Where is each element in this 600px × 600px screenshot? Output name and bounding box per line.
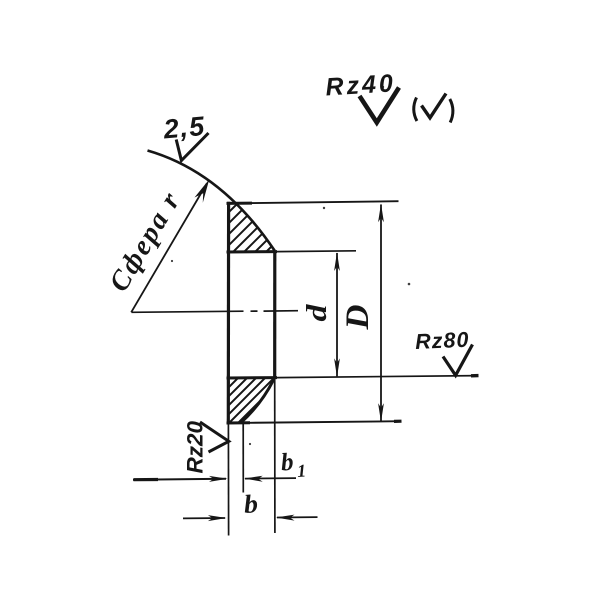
b1 arrowhead (right-pointing, at left face line) bbox=[209, 476, 228, 482]
b1 dimension line right part bbox=[245, 477, 296, 480]
D dimension line bbox=[380, 205, 382, 422]
b arrowhead (left-pointing, at right edge line) bbox=[276, 515, 295, 521]
parenthesis left of (check) bbox=[414, 98, 417, 122]
svg-text:Rz80: Rz80 bbox=[415, 328, 470, 354]
scan speck left of leader line bbox=[171, 260, 173, 262]
svg-text:b: b bbox=[280, 449, 294, 477]
washer top face line (thick part) bbox=[227, 202, 253, 205]
top extension line for D bbox=[252, 201, 399, 203]
hatching bottom band bbox=[177, 360, 301, 430]
svg-text:Rz40: Rz40 bbox=[325, 69, 397, 101]
svg-text:Rz20: Rz20 bbox=[183, 420, 208, 473]
washer right edge line (hole-sphere intersection) bbox=[273, 250, 276, 378]
washer hole-bottom line (thick) bbox=[227, 376, 278, 379]
hatching top band bbox=[193, 193, 298, 298]
b1 extension line (arc-bottom intersection) bbox=[242, 424, 244, 493]
b1 arrowhead (left-pointing, at b1 line) bbox=[244, 476, 263, 482]
b1 dimension line left start blob bbox=[134, 478, 159, 481]
scan speck near Rz40 check bbox=[382, 86, 384, 88]
washer bottom face line (thick part) bbox=[227, 421, 251, 424]
Rz80 roughness checkmark on surface line bbox=[443, 345, 473, 376]
scan speck right of D label bbox=[408, 283, 411, 286]
parenthesis right of (check) bbox=[450, 99, 453, 123]
Rz20 roughness checkmark on left face extension bbox=[200, 422, 229, 452]
washer hole-top line (thick) bbox=[227, 250, 278, 253]
d dimension arrowhead bottom bbox=[334, 358, 340, 377]
arrowhead of sphere leader (points up-right at arc) bbox=[195, 179, 210, 203]
d dimension arrowhead top bbox=[334, 252, 340, 271]
roughness mark 2,5 checkmark on arc bbox=[176, 133, 208, 161]
b1 dimension line left part bbox=[133, 478, 226, 481]
right edge extension down for b bbox=[274, 378, 276, 533]
scan speck below washer bbox=[249, 443, 251, 445]
leader line for sphere radius bbox=[131, 184, 207, 313]
bottom extension line for D bbox=[250, 421, 401, 423]
b dimension line right part bbox=[277, 516, 318, 518]
hole-top extension line for d bbox=[277, 250, 356, 253]
left face extension line down bbox=[227, 424, 229, 536]
end tick of Rz80 surface line bbox=[471, 374, 479, 378]
D dimension arrowhead bottom bbox=[378, 403, 384, 422]
svg-text:1: 1 bbox=[296, 460, 306, 481]
hole-bottom extension line (surface for Rz80) bbox=[277, 376, 478, 378]
small checkmark in parens bbox=[422, 94, 447, 118]
scan speck above top extension line bbox=[323, 207, 325, 209]
washer left face line bbox=[227, 202, 231, 424]
b arrowhead (right-pointing, at left face line) bbox=[208, 515, 227, 521]
center axis line (dash-dot) bbox=[132, 311, 244, 312]
D dimension arrowhead top bbox=[378, 204, 384, 223]
b dimension line left part bbox=[183, 517, 225, 519]
d dimension line bbox=[336, 253, 338, 376]
end tick of bottom extension line bbox=[394, 420, 402, 423]
svg-text:d: d bbox=[302, 303, 333, 321]
svg-text:2,5: 2,5 bbox=[161, 111, 206, 145]
general roughness mark Rz40 checkmark bbox=[360, 88, 400, 123]
sphere arc (top, outside + through top band) bbox=[148, 151, 275, 251]
svg-text:D: D bbox=[340, 304, 376, 330]
sphere arc (bottom band) bbox=[241, 378, 275, 424]
svg-text:Сфера r: Сфера r bbox=[103, 186, 187, 297]
svg-text:b: b bbox=[243, 489, 259, 519]
